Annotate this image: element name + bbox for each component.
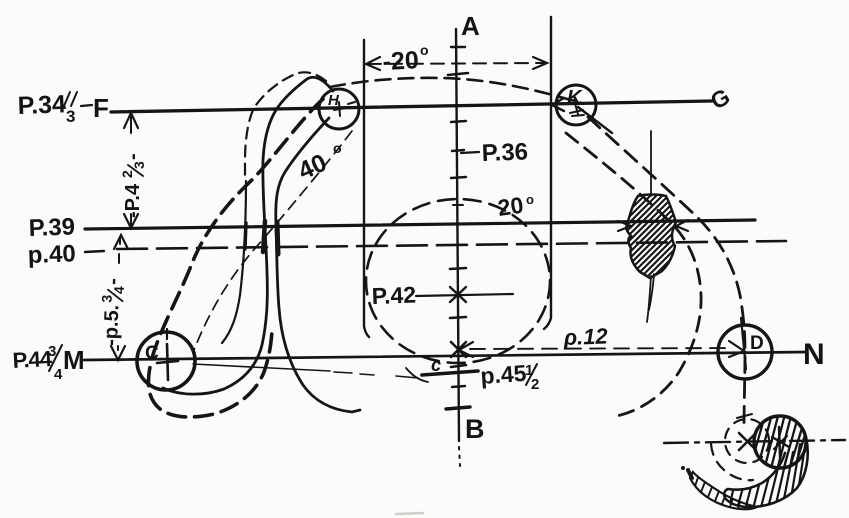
axis tick y205 bbox=[453, 204, 463, 206]
lower sliver crescent of section bbox=[690, 472, 757, 509]
svg-text:-20: -20 bbox=[382, 46, 420, 76]
P.42 horizontal line through X bbox=[416, 294, 513, 296]
P.12 right arrow into D bbox=[729, 341, 744, 357]
tick on arc below D bbox=[737, 414, 752, 418]
dimension P.4 2/3 stem lower bbox=[130, 214, 132, 226]
cross mark inside C bbox=[157, 344, 178, 380]
20 degree dimension dashed line at top bbox=[368, 63, 545, 64]
blade inner dashed contour top over peak bbox=[245, 72, 326, 176]
right vertical dimension line bbox=[544, 17, 551, 329]
axis tick y150 bbox=[452, 150, 464, 151]
center dashed circle bbox=[366, 199, 550, 363]
dimension P.5 3/4 stem dashes bbox=[119, 238, 120, 263]
P.12 left arrow bbox=[459, 342, 473, 357]
svg-text:M: M bbox=[63, 345, 85, 375]
horizontal line F (P.34 1/3 level) bbox=[111, 101, 712, 112]
vertical mark through disc center bbox=[779, 427, 780, 458]
thin dashed 40-degree arc from H down to C bbox=[194, 131, 352, 350]
hook on leader near c bbox=[406, 368, 428, 382]
svg-text:-: - bbox=[102, 278, 124, 285]
bold underline of small c bbox=[422, 371, 478, 375]
axis tick y318 bbox=[450, 317, 466, 318]
axis tick y387 bbox=[452, 386, 465, 387]
svg-text:o: o bbox=[420, 42, 429, 58]
vertical axis A-B bbox=[456, 29, 459, 441]
svg-text:C: C bbox=[145, 343, 159, 364]
blade solid right edge from H sweeping to bottom bbox=[276, 118, 360, 412]
label P.5 3/4 rotated bbox=[97, 278, 127, 347]
svg-text:P.42: P.42 bbox=[371, 281, 416, 309]
axis long tick y408 bbox=[446, 407, 470, 409]
section detail dashed circle bbox=[725, 419, 769, 463]
section detail outer dashed arc bbox=[711, 444, 753, 480]
label P.4 2/3 rotated bbox=[119, 153, 147, 218]
svg-text:p.40: p.40 bbox=[27, 240, 76, 269]
horizontal line M-N bbox=[84, 352, 806, 360]
svg-text:3: 3 bbox=[131, 161, 147, 169]
X mark at P.42 center bbox=[450, 287, 466, 302]
axis tick y366 bbox=[451, 365, 466, 367]
svg-text:o: o bbox=[526, 192, 534, 207]
arrow left of 20 dim bbox=[366, 57, 380, 70]
dimension P.5 3/4 lower stem bbox=[117, 346, 119, 350]
svg-text:ρ.12: ρ.12 bbox=[562, 323, 609, 350]
tail hatching bbox=[720, 440, 811, 514]
faint bottom smudge bbox=[396, 513, 423, 514]
vertical tail below blob bbox=[647, 131, 654, 322]
P.36 leader tick bbox=[461, 152, 479, 153]
X mark at bottom center c bbox=[451, 342, 466, 357]
arrow right of 20 dim bbox=[533, 57, 547, 69]
circle H bbox=[319, 89, 359, 129]
svg-text:P.39: P.39 bbox=[28, 213, 75, 242]
horizontal line P.40 (long dashed) bbox=[117, 241, 786, 249]
P.12 dashed dimension line bbox=[470, 348, 732, 349]
top dashed arc between H and K bbox=[330, 78, 581, 103]
svg-text:3: 3 bbox=[99, 294, 115, 303]
svg-text:-: - bbox=[122, 153, 144, 160]
cross mark inside K bbox=[570, 100, 584, 116]
svg-text:D: D bbox=[750, 333, 764, 354]
svg-text:P.36: P.36 bbox=[481, 138, 528, 167]
small cross in disc bbox=[772, 436, 789, 449]
svg-text:p.45: p.45 bbox=[480, 360, 528, 389]
heavy stroke at sliver tip bbox=[688, 470, 692, 478]
svg-text:-p.5.: -p.5. bbox=[100, 304, 123, 346]
solid start of outer right arc at K bbox=[578, 107, 612, 133]
axis tick y74 bbox=[448, 73, 468, 75]
down arrow at P.39 bbox=[124, 214, 138, 228]
hatched blob outline bbox=[626, 195, 676, 279]
notch on blade right edge at P.39 bbox=[277, 222, 278, 254]
svg-text:G: G bbox=[706, 83, 734, 114]
left vertical dimension line bbox=[364, 40, 369, 337]
short dash above C bbox=[166, 329, 168, 339]
svg-text:H: H bbox=[328, 92, 340, 109]
sliver hatching bbox=[695, 472, 749, 510]
dimension P.5 3/4 up arrow below P.39 bbox=[114, 235, 128, 249]
outer dashed arc from K through D to section mark bbox=[588, 117, 745, 428]
section detail hatched disc bbox=[754, 416, 806, 468]
axis tick y178 bbox=[451, 177, 466, 178]
circle C bbox=[137, 332, 195, 390]
horizontal line P.39 bbox=[85, 220, 755, 229]
svg-text:-P.4: -P.4 bbox=[122, 183, 144, 218]
svg-text:F: F bbox=[93, 93, 109, 123]
svg-text:4: 4 bbox=[54, 366, 63, 383]
svg-text:B: B bbox=[465, 414, 485, 444]
svg-text:P.34: P.34 bbox=[17, 90, 66, 120]
svg-text:20: 20 bbox=[496, 192, 525, 221]
blade inner contour solid lower part bbox=[222, 181, 246, 343]
svg-text:40: 40 bbox=[294, 149, 331, 186]
arrow on F line pointing at right vline bbox=[552, 98, 564, 111]
solid portion of arc inside D circle bbox=[741, 318, 746, 369]
svg-text:2: 2 bbox=[531, 376, 539, 393]
notch on blade left edge at P.39 bbox=[263, 221, 265, 252]
up arrow at F line bbox=[124, 113, 138, 128]
inner dashed arc from K curving down left bbox=[566, 133, 701, 417]
notch on inner contour at P.39 bbox=[245, 223, 246, 249]
axis tick y269 bbox=[450, 268, 466, 269]
small arrows at blob sides on P.39 bbox=[618, 220, 688, 231]
down arrow at M line bbox=[111, 346, 125, 360]
cross mark inside H bbox=[334, 102, 355, 116]
leader line from C toward P.45 label bbox=[193, 364, 330, 371]
axis tick y47 bbox=[451, 46, 465, 48]
circle D bbox=[718, 325, 772, 379]
dot left of sliver bbox=[681, 466, 685, 470]
dotted continuation below B bbox=[459, 447, 460, 466]
axis tick y122 bbox=[451, 121, 466, 122]
blob hatching bbox=[546, 190, 752, 282]
section detail tail crescent outline bbox=[724, 437, 808, 507]
svg-text:c: c bbox=[431, 355, 441, 375]
svg-text:N: N bbox=[803, 338, 825, 371]
circle K bbox=[556, 85, 596, 125]
X mark at section center bbox=[739, 433, 756, 450]
svg-text:2: 2 bbox=[119, 170, 135, 178]
dimension P.4 2/3 stem upper bbox=[130, 116, 132, 133]
big dashed blade outline from H looping under C bbox=[148, 99, 323, 417]
svg-text:A: A bbox=[461, 11, 480, 41]
section horizontal dash-dot axis bbox=[664, 440, 845, 443]
svg-text:3: 3 bbox=[66, 107, 75, 126]
svg-text:K: K bbox=[567, 87, 583, 109]
disc hatching bbox=[744, 408, 810, 482]
svg-text:o: o bbox=[333, 140, 342, 156]
blade solid outline left edge with peak bbox=[163, 77, 333, 394]
